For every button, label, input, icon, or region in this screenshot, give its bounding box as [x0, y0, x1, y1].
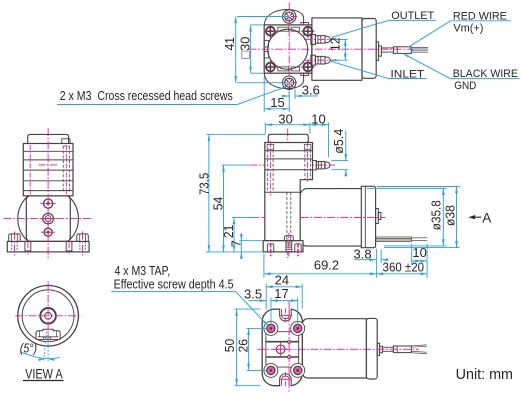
- svg-text:3.6: 3.6: [302, 83, 320, 98]
- svg-text:ø38: ø38: [443, 205, 458, 226]
- svg-text:17: 17: [274, 286, 288, 301]
- svg-text:ø5.4: ø5.4: [331, 129, 346, 154]
- svg-text:3.8: 3.8: [354, 246, 372, 261]
- svg-text:10: 10: [311, 112, 325, 127]
- svg-text:Vm(+): Vm(+): [453, 22, 483, 34]
- svg-text:30: 30: [278, 112, 292, 127]
- svg-text:10: 10: [412, 245, 426, 260]
- svg-text:54: 54: [210, 197, 225, 211]
- svg-text:ø35.8: ø35.8: [429, 200, 444, 230]
- svg-text:3.5: 3.5: [244, 286, 262, 301]
- svg-text:21: 21: [221, 225, 236, 239]
- svg-text:A: A: [482, 211, 491, 226]
- svg-text:Unit: mm: Unit: mm: [456, 366, 513, 383]
- svg-text:69.2: 69.2: [314, 258, 339, 273]
- svg-text:15: 15: [270, 95, 284, 110]
- svg-text:2 x M3 Cross recessed head sc: 2 x M3 Cross recessed head screws: [60, 88, 233, 103]
- svg-text:VIEW A: VIEW A: [25, 366, 63, 381]
- svg-text:26: 26: [235, 339, 250, 353]
- svg-text:41: 41: [222, 37, 237, 51]
- svg-text:□30: □30: [238, 37, 253, 59]
- svg-text:(5°): (5°): [20, 342, 37, 356]
- svg-text:GND: GND: [454, 80, 476, 92]
- svg-text:7: 7: [228, 240, 243, 247]
- svg-text:4 x M3 TAP,: 4 x M3 TAP,: [115, 263, 171, 278]
- svg-text:Effective screw depth 4.5: Effective screw depth 4.5: [114, 277, 234, 292]
- svg-text:73.5: 73.5: [196, 173, 211, 196]
